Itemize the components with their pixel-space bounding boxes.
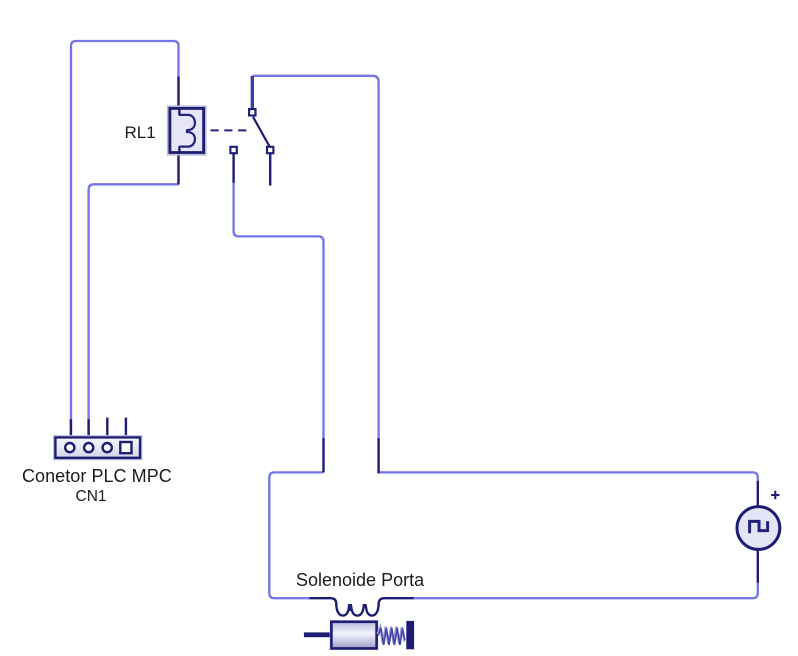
pin 1 — [70, 419, 72, 437]
hole 3 — [103, 443, 112, 452]
wire: switch common top horizontal to right drop — [252, 76, 378, 440]
pin: switch NO stub — [269, 154, 271, 186]
wire: AC source bottom to solenoid right — [413, 582, 758, 598]
pin: switch common feed (dark over wire) — [251, 76, 254, 109]
svg-text:Solenoide Porta: Solenoide Porta — [296, 570, 425, 590]
hole 2 — [84, 443, 93, 452]
switch contact: common top — [249, 109, 255, 115]
pin: relay bottom — [177, 146, 179, 185]
rod — [304, 632, 332, 637]
svg-text:CN1: CN1 — [76, 488, 107, 505]
solenoid physical icon — [304, 621, 414, 650]
pin: AC source top — [757, 481, 759, 506]
body — [330, 621, 377, 650]
hole 1 — [65, 443, 74, 452]
solenoide porta coil symbol — [310, 598, 414, 615]
svg-text:Conetor PLC MPC: Conetor PLC MPC — [22, 466, 172, 486]
wire: mid horizontal left segment into bottom loop — [269, 472, 323, 598]
wire: relay bottom to connector pin2 — [89, 184, 179, 437]
wire: mid horizontal right segment to AC source top — [379, 472, 758, 482]
wire: top-left loop connector pin1 to relay top — [71, 41, 179, 437]
plus polarity marker — [771, 491, 779, 499]
connector CN1 — [54, 418, 142, 460]
pin: switch NC down dark segment — [232, 154, 234, 183]
wire: switch NC contact down, jog right, down to bottom loop — [234, 182, 324, 440]
AC source — [737, 507, 780, 550]
pin: relay top — [177, 77, 179, 116]
spring — [378, 627, 405, 645]
relay RL1 coil box — [168, 106, 206, 155]
dashed actuation link — [211, 129, 249, 131]
pin 3 — [106, 418, 108, 437]
switch arm — [253, 117, 270, 147]
connector body — [55, 437, 140, 458]
pin: top net dark segment above junction — [377, 438, 379, 473]
hole 4 square — [120, 442, 131, 453]
pin 2 — [87, 419, 89, 437]
pin 4 — [125, 418, 127, 437]
svg-text:RL1: RL1 — [125, 123, 156, 142]
pin: NC net dark segment above junction — [322, 438, 324, 472]
pin: AC source bottom — [757, 550, 759, 583]
end bar — [406, 621, 414, 649]
switch contact: NC left — [230, 147, 236, 153]
switch contact: NO right — [267, 147, 273, 153]
